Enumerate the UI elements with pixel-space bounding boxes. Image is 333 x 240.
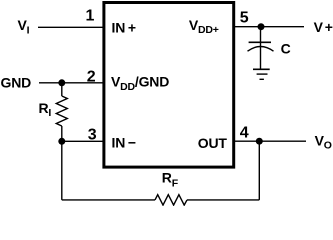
svg-text:1: 1 [86, 8, 95, 25]
svg-text:2: 2 [87, 69, 96, 86]
svg-text:GND: GND [1, 75, 32, 91]
svg-text:4: 4 [240, 124, 249, 141]
svg-text:C: C [281, 41, 291, 57]
svg-text:IN−: IN− [112, 134, 136, 150]
svg-text:5: 5 [240, 10, 249, 27]
svg-text:IN+: IN+ [112, 19, 136, 35]
svg-text:OUT: OUT [198, 135, 228, 151]
svg-text:3: 3 [88, 126, 97, 143]
